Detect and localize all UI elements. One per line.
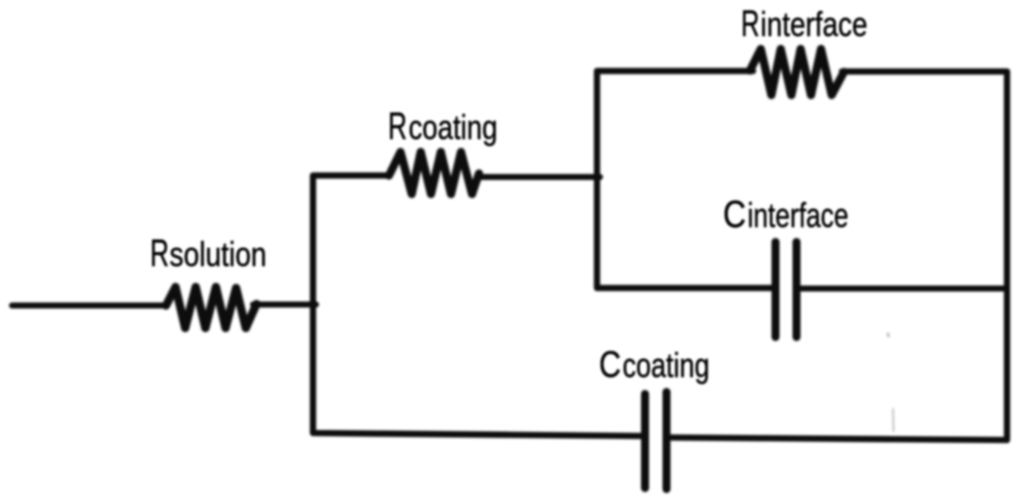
svg-text:coating: coating	[409, 109, 498, 147]
svg-text:R: R	[741, 3, 760, 44]
svg-text:C: C	[723, 194, 746, 236]
svg-text:interface: interface	[748, 197, 849, 235]
svg-text:solution: solution	[170, 236, 267, 274]
svg-text:R: R	[388, 106, 407, 148]
svg-text:C: C	[599, 343, 621, 385]
svg-text:interface: interface	[761, 6, 868, 44]
svg-text:coating: coating	[623, 347, 710, 385]
svg-text:R: R	[150, 233, 169, 275]
